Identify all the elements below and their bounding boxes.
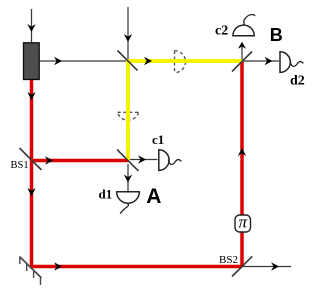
svg-text:d1: d1 <box>99 186 113 201</box>
svg-text:c1: c1 <box>152 132 164 147</box>
svg-text:A: A <box>146 185 161 208</box>
svg-text:BS2: BS2 <box>219 254 238 266</box>
svg-text:π: π <box>239 213 248 232</box>
svg-text:d2: d2 <box>290 74 305 89</box>
svg-text:BS1: BS1 <box>11 160 29 171</box>
svg-text:B: B <box>270 25 283 45</box>
svg-text:c2: c2 <box>215 23 228 38</box>
